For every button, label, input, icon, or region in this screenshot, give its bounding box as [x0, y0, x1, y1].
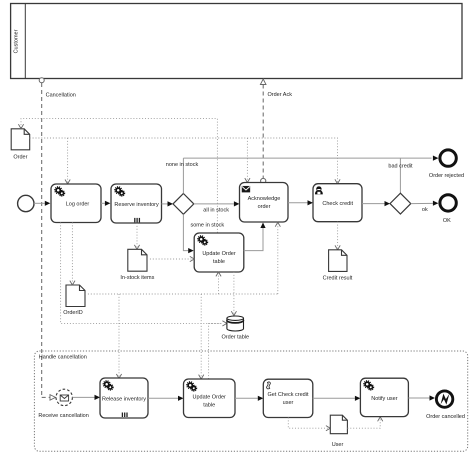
start event — [18, 195, 34, 211]
task Notify user — [360, 378, 408, 416]
task Reserve inventory — [111, 184, 162, 223]
pool Customer — [11, 4, 462, 79]
data association In-stock items to Update Order table — [147, 256, 194, 261]
svg-text:Handle cancellation: Handle cancellation — [39, 355, 87, 361]
task Update Order table 2 — [184, 379, 236, 418]
data association User to Notify user — [347, 417, 382, 428]
svg-text:bad credit: bad credit — [388, 164, 413, 170]
svg-text:table: table — [213, 259, 225, 265]
sequence flow all in stock (gateway to Acknowledge order) — [194, 201, 240, 206]
svg-text:order: order — [258, 204, 271, 210]
event subprocess Handle cancellation — [34, 351, 467, 451]
svg-text:Release inventory: Release inventory — [102, 396, 146, 402]
svg-text:table: table — [203, 403, 215, 409]
svg-text:OrderID: OrderID — [63, 310, 83, 316]
svg-text:all in stock: all in stock — [203, 208, 229, 214]
svg-text:Reserve inventory: Reserve inventory — [114, 202, 159, 208]
data association Order to Log order / Acknowledge order / Check credit — [30, 138, 340, 184]
data association Update Order table 2 to Order table — [209, 321, 227, 379]
svg-text:Order cancelled: Order cancelled — [426, 414, 465, 420]
data association Log order to Order table — [61, 223, 222, 324]
sequence flow Update Order table 2 to Get Check credit user — [235, 396, 263, 401]
sequence flow Notify user to Order cancelled — [408, 395, 435, 400]
sequence flow some in stock (gateway to Update Order table) — [183, 214, 193, 253]
svg-text:Order Ack: Order Ack — [268, 92, 293, 98]
data association OrderID net — [85, 222, 280, 379]
sequence flow bad credit (gateway2 top joins line) — [399, 158, 401, 193]
svg-text:Acknowledge: Acknowledge — [248, 196, 281, 202]
sequence flow Update Order table to Acknowledge order — [244, 223, 266, 251]
svg-text:Update Order: Update Order — [202, 251, 235, 257]
svg-text:none in stock: none in stock — [166, 162, 199, 168]
svg-text:OK: OK — [443, 218, 451, 224]
data store Order table — [227, 316, 244, 331]
svg-text:User: User — [332, 442, 344, 448]
data association Update Order table to Order — [18, 119, 217, 233]
data association Check credit to Credit result — [335, 222, 340, 250]
svg-text:In-stock items: In-stock items — [120, 275, 154, 281]
svg-text:ok: ok — [422, 207, 428, 213]
end event Order rejected — [440, 150, 456, 166]
svg-text:Receive cancellation: Receive cancellation — [38, 413, 88, 419]
svg-text:Get Check credit: Get Check credit — [268, 392, 309, 398]
data object OrderID — [66, 285, 85, 307]
svg-text:Update Order: Update Order — [193, 395, 226, 401]
data object User — [330, 415, 347, 434]
task Acknowledge order — [240, 183, 289, 223]
svg-text:Notify user: Notify user — [371, 396, 397, 402]
svg-text:Order rejected: Order rejected — [429, 173, 464, 179]
sequence flow Log order to Reserve inventory — [101, 201, 110, 206]
data association Get Check credit user to User — [288, 418, 330, 431]
data association Reserve inventory to In-stock items — [134, 223, 139, 249]
gateway 2 credit — [390, 193, 411, 214]
svg-text:Credit result: Credit result — [323, 276, 353, 282]
sequence flow Check credit to gateway 2 — [362, 201, 390, 206]
svg-text:Check credit: Check credit — [322, 201, 353, 207]
svg-text:Cancellation: Cancellation — [46, 93, 76, 99]
task Get Check credit user — [263, 379, 313, 417]
svg-text:user: user — [283, 400, 294, 406]
end event Order cancelled — [436, 391, 452, 407]
sequence flow Release inventory to Update Order table 2 — [148, 396, 184, 401]
sequence flow Get Check credit user to Notify user — [313, 396, 361, 401]
sequence flow start to Log order — [34, 201, 50, 206]
data association Update Order table to Order table — [231, 272, 236, 316]
data object Credit result — [329, 250, 347, 272]
svg-text:Order: Order — [13, 155, 27, 161]
sequence flow Receive cancellation to Release inventory — [72, 395, 100, 400]
task Check credit — [313, 184, 362, 222]
gateway 1 stock — [173, 194, 194, 215]
task Log order — [51, 184, 101, 223]
svg-text:Order table: Order table — [222, 335, 250, 341]
message flow Cancellation (pool to Receive cancellation) — [39, 78, 55, 400]
task Update Order table — [194, 233, 244, 272]
svg-text:Log order: Log order — [66, 202, 90, 208]
sequence flow Reserve inventory to gateway — [162, 201, 174, 206]
start event Receive cancellation — [56, 389, 72, 405]
sequence flow ok (gateway2 to OK) — [411, 201, 439, 206]
data object Order — [11, 129, 30, 150]
data object In-stock items — [128, 249, 147, 271]
task Release inventory — [100, 378, 148, 418]
svg-text:some in stock: some in stock — [191, 222, 225, 228]
sequence flow none in stock to Order rejected — [183, 156, 438, 194]
svg-text:Customer: Customer — [14, 29, 20, 53]
end event OK — [440, 195, 456, 211]
data association Log order to OrderID — [70, 223, 75, 286]
sequence flow Acknowledge order to Check credit — [288, 200, 313, 205]
message flow Order Ack (Acknowledge order to pool) — [260, 79, 266, 184]
